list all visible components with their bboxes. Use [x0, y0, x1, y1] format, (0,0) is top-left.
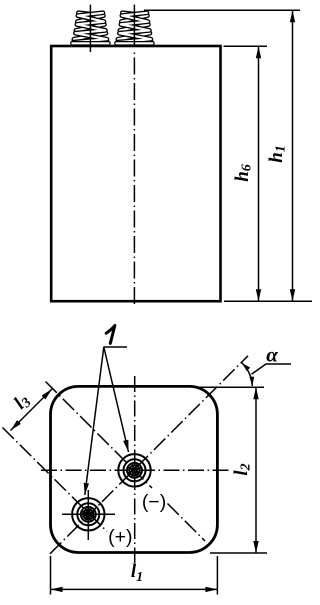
alpha angle arc — [242, 363, 252, 386]
plus terminal vertical centerline — [87, 490, 89, 540]
dimension line h6 — [258, 46, 260, 301]
l2 extension top — [195, 386, 264, 388]
body vertical centerline — [133, 5, 135, 47]
diagonal BL-TR extended to alpha — [50, 356, 248, 554]
l3 dimension line — [11, 389, 53, 431]
horizontal centerline — [41, 469, 230, 471]
l1 extension left — [50, 556, 52, 595]
label h1 — [266, 145, 289, 163]
svg-text:(−): (−) — [142, 491, 166, 513]
svg-text:l3: l3 — [10, 390, 35, 415]
terminal plus — [72, 498, 104, 530]
body centerline dashed part — [133, 53, 135, 308]
svg-text:α: α — [266, 343, 278, 367]
svg-text:l1: l1 — [131, 561, 143, 585]
svg-text:h1: h1 — [266, 145, 289, 163]
diagonal TL-BR continued after label — [168, 504, 206, 542]
label h6 — [232, 164, 255, 182]
rounded square outline — [51, 386, 218, 552]
capacitor body outline — [51, 46, 220, 301]
l1 dimension line — [51, 588, 218, 590]
l2 extension bottom — [210, 552, 267, 554]
plus terminal horizontal centerline — [62, 513, 115, 515]
leader to minus terminal — [104, 347, 129, 452]
extension line body top (h6) — [224, 45, 268, 47]
svg-text:h6: h6 — [232, 164, 255, 182]
terminal spring right — [116, 13, 152, 44]
terminal minus — [118, 454, 150, 486]
leader to plus terminal — [85, 347, 104, 495]
label l3 — [10, 390, 35, 415]
label 1 — [106, 325, 115, 343]
alpha shelf — [252, 364, 292, 374]
l2 dimension line — [255, 387, 257, 553]
callout 1 shelf — [104, 346, 128, 348]
label l2 — [231, 463, 254, 475]
extension line bottom — [224, 300, 312, 302]
svg-text:l2: l2 — [231, 463, 254, 475]
spring left centerline — [89, 5, 91, 52]
parallel axis through plus terminal — [3, 428, 108, 532]
l1 extension right — [216, 556, 218, 595]
svg-text:(+): (+) — [108, 526, 132, 548]
terminal spring left — [72, 13, 108, 44]
extension line top (h1) — [144, 9, 300, 11]
diagonal TL-BR — [46, 382, 153, 489]
vertical centerline — [134, 376, 136, 563]
dimension line h1 — [292, 10, 294, 301]
